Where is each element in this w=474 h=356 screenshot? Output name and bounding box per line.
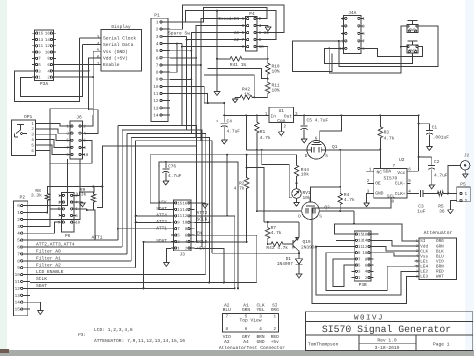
svg-text:5: 5 — [17, 239, 20, 244]
wire Display pin4 Serial Data — [82, 44, 101, 46]
svg-text:R41 1%: R41 1% — [230, 63, 247, 68]
wire P1 pin11 — [170, 94, 208, 103]
svg-text:10: 10 — [75, 221, 80, 226]
svg-text:2: 2 — [274, 327, 277, 332]
Q2 FET symbol — [306, 205, 315, 207]
svg-text:TomThompson: TomThompson — [308, 342, 339, 348]
svg-text:C3: C3 — [418, 203, 424, 209]
svg-text:4.7k: 4.7k — [344, 197, 355, 203]
svg-text:11: 11 — [153, 92, 159, 97]
wire Display pin6 Vdd — [84, 58, 101, 134]
svg-text:A0 5: A0 5 — [234, 31, 245, 36]
svg-text:5: 5 — [245, 315, 248, 320]
capacitor C1 — [419, 123, 430, 125]
svg-text:SDAT: SDAT — [156, 238, 167, 244]
svg-text:SCLK: SCLK — [36, 276, 47, 282]
svg-text:4.7k: 4.7k — [234, 185, 245, 191]
svg-text:3: 3 — [259, 315, 262, 320]
wire J3 pin10 SCLK — [195, 221, 210, 223]
svg-text:Serial Data: Serial Data — [103, 42, 134, 48]
svg-text:SCLK: SCLK — [197, 216, 208, 222]
resistor R43 — [269, 242, 285, 246]
svg-text:Enable: Enable — [103, 62, 120, 68]
wire RV1 wiper feed — [262, 150, 292, 198]
svg-text:In: In — [271, 114, 277, 119]
svg-text:W0IVJ: W0IVJ — [354, 313, 384, 322]
connector P3A — [35, 30, 54, 81]
wire J4A pin10 loop to SW2 — [324, 48, 412, 63]
svg-text:SDAT: SDAT — [156, 206, 167, 212]
svg-text:13: 13 — [153, 106, 159, 111]
wire P2 pin5 ATT1 corner — [30, 239, 118, 241]
wire J4A pin8 loop — [292, 41, 341, 72]
wire J3 pin13 SDAT inner loop — [159, 162, 238, 289]
svg-text:2N3906: 2N3906 — [301, 244, 318, 250]
svg-text:7: 7 — [156, 63, 159, 68]
ground U2 GND — [366, 202, 368, 203]
svg-text:Page 1: Page 1 — [433, 341, 450, 347]
svg-text:SW1: SW1 — [409, 28, 417, 33]
svg-text:1%: 1% — [244, 93, 250, 98]
wire jog2 ATT2 net — [122, 129, 202, 131]
transistor Q19 — [292, 240, 294, 249]
svg-text:P3B: P3B — [359, 282, 367, 288]
svg-text:ORG: ORG — [271, 307, 279, 313]
wire J3 pin2 +5V — [195, 248, 225, 282]
wire decoder enable vertical with ground — [216, 11, 218, 89]
wire P6 pin6 from R9 — [76, 209, 87, 210]
wire Vcc riser — [418, 115, 420, 171]
resistor R42 — [238, 95, 254, 99]
svg-text:.001uF: .001uF — [433, 135, 450, 141]
wire +5V tap to ATT2 row — [226, 155, 228, 216]
svg-text:36: 36 — [439, 209, 445, 215]
wire P3B pin9 loop to attenuator — [326, 253, 419, 291]
svg-text:ATT2: ATT2 — [197, 210, 208, 216]
wire P3B pin15 left loop — [334, 224, 354, 234]
svg-text:OE: OE — [375, 181, 381, 187]
resistor R10 — [266, 59, 270, 79]
svg-text:14: 14 — [153, 113, 159, 118]
wire +5V rail at y115 — [224, 114, 269, 116]
svg-text:15: 15 — [15, 308, 21, 313]
svg-text:3: 3 — [97, 35, 100, 41]
wire P4 pin10 to R10 — [261, 47, 268, 59]
svg-text:4: 4 — [156, 42, 159, 47]
svg-text:9: 9 — [17, 266, 20, 271]
junction R3 top — [379, 114, 381, 116]
potentiometer RV1 — [292, 189, 302, 199]
svg-text:6: 6 — [156, 56, 159, 61]
svg-text:12: 12 — [182, 214, 187, 219]
svg-text:GND: GND — [256, 339, 264, 345]
svg-text:1N4007: 1N4007 — [277, 261, 294, 267]
svg-text:BLU: BLU — [223, 308, 231, 313]
wire Q2 source right — [354, 211, 419, 241]
svg-text:Display: Display — [111, 24, 131, 30]
svg-text:OP1: OP1 — [24, 114, 33, 120]
svg-text:2: 2 — [17, 218, 20, 223]
wire P2 pin0 up — [30, 159, 68, 206]
wire R5 to P5 — [444, 193, 456, 195]
capacitor C76 — [165, 162, 167, 168]
wire R1 bottom to Q2 line — [256, 140, 258, 211]
pushbutton SW1 — [408, 19, 418, 21]
wire R41 left — [217, 58, 226, 60]
junction C4 rail — [223, 114, 225, 116]
svg-text:Q19: Q19 — [303, 239, 311, 245]
svg-text:6: 6 — [408, 168, 411, 173]
svg-text:GND: GND — [375, 190, 383, 196]
wire J3 pin3 SDAT long — [144, 241, 247, 243]
capacitor C3 — [419, 190, 421, 197]
svg-text:14: 14 — [362, 239, 367, 244]
wire OP1 pin1 to J6 — [40, 123, 68, 126]
svg-text:10k: 10k — [301, 172, 309, 178]
svg-text:13: 13 — [38, 38, 43, 43]
capacitor C5 — [303, 115, 305, 125]
wire Q19 emitter up — [298, 222, 300, 237]
regulator U1 — [269, 107, 294, 122]
svg-text:8: 8 — [259, 38, 262, 43]
svg-text:13: 13 — [15, 294, 21, 299]
wire P3A pin3 U-route — [14, 38, 79, 102]
wire P4 pin3 bus — [196, 26, 242, 283]
wire P2 pin9 corner — [30, 267, 136, 269]
junction R1 Q1 channel — [256, 149, 258, 151]
svg-text:P3:: P3: — [78, 333, 86, 338]
svg-text:10%: 10% — [272, 87, 280, 93]
wire J3 pin15 +5V loop — [150, 155, 296, 203]
wire P6 pin2 up — [76, 187, 94, 196]
svg-text:J2: J2 — [464, 154, 470, 159]
svg-text:P6: P6 — [65, 233, 71, 239]
svg-text:LE3: LE3 — [420, 275, 428, 280]
svg-text:14: 14 — [15, 301, 21, 306]
junction R41 R10 — [267, 58, 269, 60]
wire OP1 pin4 to J6 pin7 — [40, 140, 68, 148]
svg-text:C76: C76 — [168, 164, 176, 170]
wire C4 riser — [223, 103, 225, 123]
resistor R7 — [247, 168, 264, 222]
svg-text:1uF: 1uF — [417, 210, 425, 215]
wire P1 pin8 bus — [170, 44, 177, 73]
svg-text:5: 5 — [97, 48, 100, 54]
left edge tint — [0, 0, 7, 356]
svg-text:P3A: P3A — [40, 81, 48, 87]
wire J2 branch — [448, 165, 461, 193]
wire P2 pin10 LCD enable — [30, 274, 206, 276]
svg-text:WHT: WHT — [436, 275, 444, 280]
svg-text:2: 2 — [465, 199, 468, 204]
junction R10 R11 — [267, 78, 269, 80]
wire U2 pin7 SDA — [379, 149, 381, 168]
wire P1 pin7 bus — [170, 64, 201, 66]
wire P1 pin3 bus — [170, 35, 187, 37]
svg-text:GRN: GRN — [242, 307, 250, 313]
resistor R44 — [296, 155, 298, 158]
wire D1 to ground — [298, 264, 300, 273]
wire J3 pin16 ground — [195, 202, 206, 204]
svg-text:1: 1 — [17, 211, 20, 216]
svg-text:R43 4.7k: R43 4.7k — [266, 245, 288, 251]
title block — [306, 312, 473, 351]
svg-text:3: 3 — [295, 112, 298, 117]
svg-text:YEL: YEL — [256, 308, 264, 313]
junction R1 Q2 drain — [256, 210, 258, 212]
svg-text:A3: A3 — [224, 339, 230, 345]
svg-text:4: 4 — [17, 232, 20, 237]
svg-text:1: 1 — [369, 168, 372, 173]
svg-text:R3: R3 — [384, 130, 390, 136]
wire OP1 pin6 — [40, 150, 61, 163]
resistor R5 — [437, 191, 445, 195]
svg-text:+5v: +5v — [271, 340, 279, 345]
wire P1 pin10 — [170, 87, 224, 104]
svg-text:11: 11 — [38, 44, 43, 49]
svg-text:4.7k: 4.7k — [260, 135, 271, 141]
svg-text:ATT3: ATT3 — [156, 219, 167, 225]
svg-text:9: 9 — [242, 45, 245, 50]
wire SW1 right loop — [339, 26, 438, 66]
svg-text:S: S — [319, 214, 322, 219]
svg-text:14: 14 — [182, 208, 187, 213]
svg-text:4: 4 — [259, 24, 262, 29]
wire U1 com to ground — [280, 123, 282, 131]
wire P1 pin5 bus — [170, 50, 191, 52]
transistor Q2 — [302, 202, 320, 220]
svg-text:12: 12 — [153, 99, 159, 104]
svg-text:SI570: SI570 — [384, 176, 398, 182]
wire P3B pin14 right — [374, 240, 419, 246]
wire P2 pin14 to ground — [30, 302, 40, 309]
svg-text:3-18-2010: 3-18-2010 — [375, 345, 400, 351]
svg-text:SI570 Signal Generator: SI570 Signal Generator — [322, 324, 451, 335]
resistor R9 — [91, 192, 95, 205]
capacitor C4 — [221, 122, 228, 124]
capacitor C2 — [419, 156, 432, 158]
junction R3 bottom — [379, 148, 381, 150]
wire P2 pin4 to P6 pin9 — [30, 222, 61, 233]
svg-text:R1: R1 — [260, 130, 266, 135]
wire P4 pin7 bus — [187, 39, 242, 41]
wire jog1 ATT1 net — [118, 124, 197, 126]
wire J3 pin11 ATT4 — [136, 215, 171, 217]
resistor R8 — [45, 192, 49, 203]
svg-text:LCD: 1,2,3,4,6: LCD: 1,2,3,4,6 — [94, 327, 133, 333]
wire Display pin5 Vss — [93, 51, 101, 115]
wire J3 pin9 ATT3 — [136, 221, 171, 223]
wire bottom bus SDAT — [30, 287, 235, 289]
wire P2 pin8 corner — [30, 260, 131, 262]
svg-text:C2: C2 — [434, 159, 440, 165]
svg-text:12: 12 — [45, 44, 50, 49]
resistor R1 — [255, 115, 259, 140]
transistor Q1 — [307, 141, 326, 160]
svg-text:15: 15 — [38, 32, 43, 37]
wire P2 pin7 corner — [30, 253, 127, 255]
svg-text:Vss (GND): Vss (GND) — [103, 49, 128, 55]
wire P3B pin7 loop to P3B pin5 — [333, 259, 352, 287]
svg-text:7: 7 — [226, 315, 229, 320]
junction R7 top — [267, 221, 269, 223]
svg-text:5: 5 — [156, 49, 159, 54]
wire upper feed to R9 rail — [102, 146, 196, 187]
svg-text:ATTENUATOR: 7,9,11,12,13,14,15: ATTENUATOR: 7,9,11,12,13,14,15,16 — [94, 338, 185, 344]
svg-text:10%: 10% — [272, 68, 280, 74]
wire J3 pin12 ATT2 — [195, 216, 235, 289]
wire P3B pin13 left — [336, 239, 352, 241]
resistor R11 — [266, 79, 270, 98]
svg-text:10: 10 — [15, 273, 21, 278]
wire Q1 drain-source channel — [246, 149, 307, 151]
svg-text:4.7uF: 4.7uF — [227, 129, 241, 134]
svg-text:C1: C1 — [432, 124, 438, 130]
svg-text:Spare Sw: Spare Sw — [168, 30, 190, 36]
svg-text:U1: U1 — [279, 109, 285, 114]
svg-text:1: 1 — [265, 112, 268, 117]
wire rail to Q1 drain riser — [245, 115, 247, 149]
svg-text:8: 8 — [392, 200, 395, 205]
svg-text:SDAT: SDAT — [36, 283, 47, 289]
wire J3 pin7 ATT1 — [118, 228, 171, 230]
svg-text:S: S — [325, 154, 328, 159]
wire tap to R10/R11 junction — [208, 69, 268, 79]
wire R11 bottom to R42 — [254, 96, 268, 98]
connector P3B — [354, 231, 371, 281]
svg-text:12: 12 — [362, 245, 367, 250]
wire C4 to ground — [223, 127, 225, 139]
top view connector box — [223, 314, 279, 332]
wire P3A pin4 to Vdd vertical — [56, 70, 89, 72]
svg-text:NC: NC — [377, 170, 383, 176]
resistor R4 — [339, 150, 341, 187]
wire J6 pin6 loop — [60, 140, 92, 163]
svg-text:P2: P2 — [20, 195, 26, 201]
wire R41 right — [246, 58, 268, 60]
svg-text:J6: J6 — [76, 115, 82, 121]
wire R9 bottom to P6 pin6 — [87, 205, 94, 210]
wire Q2 channel — [257, 210, 302, 212]
svg-text:Attenuator: Attenuator — [424, 230, 453, 236]
svg-text:16: 16 — [45, 32, 50, 37]
wire Display pin3 Serial Clock — [79, 37, 101, 39]
wire bottom bus SCLK — [30, 282, 257, 284]
wire P3A pin2 to Vss vertical — [56, 76, 93, 78]
svg-text:0: 0 — [17, 204, 20, 209]
wire P3B pin11 loop to attenuator — [316, 247, 419, 296]
wire P3B pin10 to attenuator — [374, 253, 419, 256]
svg-text:6: 6 — [17, 246, 20, 251]
diode D1 1N4007 — [298, 253, 300, 259]
pushbutton SW2 — [408, 40, 418, 42]
wire SW1 left to SW2 left — [401, 26, 408, 46]
wire jog4 FilterA1 net — [131, 136, 209, 138]
svg-text:16: 16 — [182, 201, 187, 206]
svg-text:1: 1 — [97, 61, 100, 67]
svg-text:CLK+: CLK+ — [395, 191, 406, 197]
svg-text:9: 9 — [156, 78, 159, 83]
wire SDAT vertical to bus — [143, 242, 145, 289]
wire P4 pin2 loop — [170, 8, 267, 22]
wire J3 pin1 to ground — [166, 248, 171, 261]
wire P4 pin1 bus — [201, 19, 242, 254]
wire J3 pin4 SCLK — [195, 241, 247, 243]
svg-text:Rev 1.0: Rev 1.0 — [377, 338, 397, 344]
wire P5 pin2 ground — [450, 200, 456, 209]
wire P3B pin16 right stub — [374, 233, 379, 235]
ground at P6 pin4 — [76, 201, 82, 203]
svg-text:Vcc: Vcc — [397, 171, 405, 176]
wire SW2 right loop — [364, 47, 423, 57]
wire J2 shield ground — [464, 170, 466, 173]
svg-text:3: 3 — [156, 35, 159, 40]
svg-text:4: 4 — [259, 327, 262, 332]
svg-text:C4: C4 — [227, 118, 233, 124]
wire Q2 gate riser to R4 — [311, 187, 341, 202]
svg-text:EN: EN — [197, 232, 203, 237]
svg-text:10: 10 — [182, 221, 187, 226]
wire R8 bottom — [46, 203, 48, 213]
svg-text:3: 3 — [242, 24, 245, 29]
wire P1 pin4 bus — [170, 43, 182, 45]
wire R42 left to ground — [235, 96, 238, 98]
svg-text:Q1: Q1 — [332, 144, 338, 150]
svg-text:6 A1: 6 A1 — [259, 31, 270, 36]
wire R8 top rail — [47, 187, 93, 192]
resistor R41 — [226, 57, 246, 61]
wire Q19 collector to D1 — [298, 251, 300, 253]
svg-text:1: 1 — [156, 21, 159, 26]
svg-text:10: 10 — [45, 50, 50, 55]
junction R44 RV1 — [296, 182, 298, 184]
wire P2 pin6 corner — [30, 246, 122, 248]
svg-text:+5V: +5V — [197, 247, 205, 252]
svg-text:Vdd (+5V): Vdd (+5V) — [103, 55, 128, 61]
wire tap to R11 bottom — [204, 75, 254, 98]
svg-text:1: 1 — [274, 315, 277, 320]
svg-text:2: 2 — [284, 125, 287, 130]
svg-text:14: 14 — [45, 38, 50, 43]
svg-text:7: 7 — [17, 252, 20, 257]
wire P6 pin6 bus right — [87, 210, 95, 240]
junction C5 — [303, 114, 305, 116]
connector J3 — [174, 200, 192, 251]
svg-text:16: 16 — [362, 233, 367, 238]
svg-text:SDA: SDA — [383, 168, 391, 174]
junction C76 top — [165, 161, 167, 163]
svg-text:8: 8 — [17, 259, 20, 264]
ground at P4 pin4 — [261, 25, 268, 27]
svg-text:3: 3 — [17, 225, 20, 230]
wire P1 pin2 loop — [170, 5, 284, 33]
svg-text:11: 11 — [15, 280, 21, 285]
svg-text:4: 4 — [97, 41, 100, 47]
wire P2 pin2 up — [30, 159, 80, 219]
wire P3A pin1 U-route — [20, 45, 82, 97]
svg-text:P1: P1 — [154, 13, 160, 19]
wire U1 out rail — [294, 114, 419, 116]
wire P3A pin6 to Display Enable — [56, 64, 101, 66]
svg-text:7: 7 — [393, 164, 396, 169]
svg-text:10: 10 — [259, 45, 265, 50]
wire RV1 to ground — [296, 198, 298, 201]
svg-text:C5 4.7uF: C5 4.7uF — [307, 117, 329, 123]
wire J6 pin2 riser — [85, 115, 93, 126]
wire P4 pin5 bus — [191, 33, 242, 275]
svg-text:J3: J3 — [180, 251, 186, 257]
svg-text:1: 1 — [465, 192, 468, 197]
